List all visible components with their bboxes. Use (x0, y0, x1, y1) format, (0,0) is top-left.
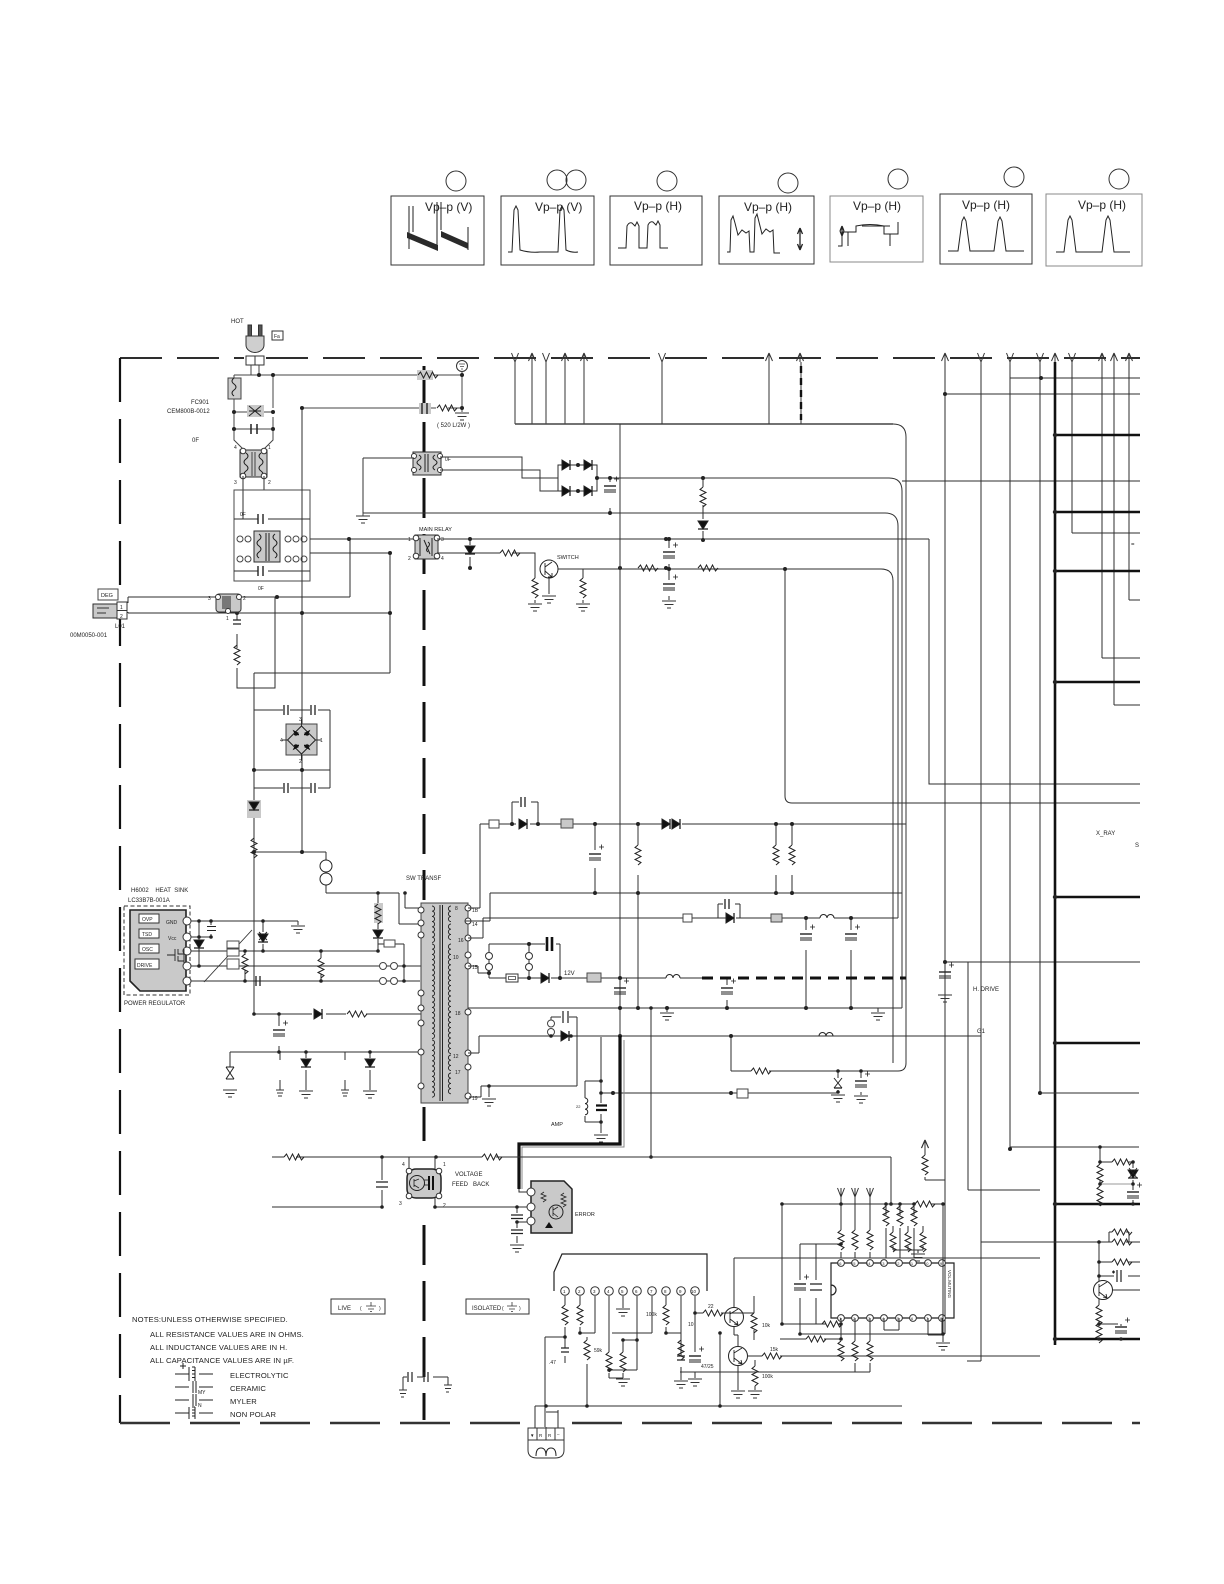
svg-text:13: 13 (880, 1261, 885, 1266)
svg-text:00M0050-001: 00M0050-001 (70, 633, 108, 639)
svg-text:FC901: FC901 (191, 400, 210, 406)
svg-text:10: 10 (691, 1289, 697, 1294)
svg-text:AMP: AMP (551, 1122, 563, 1128)
svg-text:Vp–p (H): Vp–p (H) (1078, 198, 1126, 212)
svg-text:.47: .47 (549, 1360, 556, 1366)
svg-text:3: 3 (441, 537, 444, 543)
svg-text:TSD: TSD (142, 932, 152, 938)
svg-text:Vcc: Vcc (168, 936, 177, 942)
svg-text:4: 4 (441, 556, 444, 562)
svg-text:Vp–p (H): Vp–p (H) (744, 200, 792, 214)
svg-text:ALL CAPACITANCE VALUES ARE IN: ALL CAPACITANCE VALUES ARE IN µF. (150, 1356, 294, 1365)
svg-text:( 520 L/2W ): ( 520 L/2W ) (437, 423, 470, 429)
svg-text:MYLER: MYLER (230, 1397, 257, 1406)
svg-text:22: 22 (576, 1104, 581, 1109)
svg-text:4: 4 (234, 445, 237, 451)
svg-text:H. DRIVE: H. DRIVE (973, 987, 999, 993)
svg-text:15k: 15k (770, 1347, 779, 1353)
svg-text:0F: 0F (192, 438, 199, 444)
svg-text:VOL.MUTING: VOL.MUTING (947, 1270, 952, 1299)
svg-text:MY: MY (198, 1390, 206, 1396)
svg-text:3: 3 (234, 480, 237, 486)
svg-text:POWER REGULATOR: POWER REGULATOR (124, 1001, 186, 1007)
svg-text:16: 16 (458, 938, 464, 944)
svg-text:3: 3 (208, 596, 211, 602)
svg-text:10k: 10k (762, 1323, 771, 1329)
svg-text:DEG: DEG (101, 593, 113, 599)
svg-text:L01: L01 (115, 624, 126, 630)
svg-text:Fa: Fa (274, 334, 280, 340)
svg-text:HOT: HOT (231, 319, 244, 325)
svg-text:18: 18 (455, 1011, 461, 1017)
svg-text:OSC: OSC (142, 947, 153, 953)
svg-text:12: 12 (895, 1261, 900, 1266)
svg-text:1: 1 (120, 605, 123, 611)
svg-text:2: 2 (443, 1203, 446, 1209)
svg-text:12V: 12V (564, 971, 575, 977)
svg-text:2: 2 (120, 614, 123, 620)
svg-text:17: 17 (455, 1070, 461, 1076)
svg-text:Vp–p (H): Vp–p (H) (962, 198, 1010, 212)
svg-text:SW TRANSF: SW TRANSF (406, 876, 442, 882)
svg-text:1: 1 (408, 537, 411, 543)
svg-text:ISOLATED: ISOLATED (472, 1306, 502, 1312)
svg-text:8: 8 (455, 906, 458, 912)
svg-text:ELECTROLYTIC: ELECTROLYTIC (230, 1371, 289, 1380)
svg-text:G1: G1 (977, 1029, 986, 1035)
svg-text:CEM800B-0012: CEM800B-0012 (167, 409, 210, 415)
svg-text:Vp–p (V): Vp–p (V) (535, 200, 582, 214)
svg-text:GND: GND (166, 920, 178, 926)
svg-text:47/25: 47/25 (701, 1364, 714, 1370)
svg-text:1: 1 (268, 445, 271, 451)
svg-text:ERROR: ERROR (575, 1212, 595, 1218)
svg-text:2: 2 (268, 480, 271, 486)
svg-text:NON POLAR: NON POLAR (230, 1410, 276, 1419)
svg-text:14: 14 (472, 922, 478, 928)
svg-text:16: 16 (837, 1261, 842, 1266)
svg-text:CERAMIC: CERAMIC (230, 1384, 266, 1393)
svg-text:22: 22 (708, 1304, 714, 1310)
svg-text:DRIVE: DRIVE (137, 963, 153, 969)
svg-text:FEED BACK: FEED BACK (452, 1182, 489, 1188)
svg-text:59k: 59k (594, 1348, 603, 1354)
svg-text:2: 2 (299, 759, 302, 765)
svg-text:14: 14 (866, 1261, 871, 1266)
svg-text:SWITCH: SWITCH (557, 555, 579, 561)
svg-text:NOTES:UNLESS OTHERWISE SPECIFI: NOTES:UNLESS OTHERWISE SPECIFIED. (132, 1315, 288, 1324)
svg-text:100k: 100k (646, 1312, 657, 1318)
svg-text:ALL INDUCTANCE VALUES ARE IN H: ALL INDUCTANCE VALUES ARE IN H. (150, 1343, 287, 1352)
svg-text:10: 10 (924, 1261, 929, 1266)
svg-text:3: 3 (299, 717, 302, 723)
svg-text:4: 4 (402, 1162, 405, 1168)
svg-text:0F: 0F (445, 457, 451, 463)
svg-text:▼: ▼ (530, 1433, 534, 1438)
svg-text:Vp–p (V): Vp–p (V) (425, 200, 472, 214)
svg-text:LIVE: LIVE (338, 1306, 351, 1312)
svg-text:100k: 100k (762, 1374, 773, 1380)
svg-text:N: N (198, 1403, 202, 1409)
svg-text:3: 3 (399, 1201, 402, 1207)
svg-text:ALL RESISTANCE VALUES ARE IN O: ALL RESISTANCE VALUES ARE IN OHMS. (150, 1330, 304, 1339)
svg-text:2: 2 (408, 556, 411, 562)
svg-text:S: S (1135, 843, 1139, 849)
svg-text:=: = (1131, 542, 1135, 548)
svg-text:10: 10 (453, 955, 459, 961)
svg-text:OVP: OVP (142, 917, 153, 923)
svg-text:2: 2 (243, 596, 246, 602)
svg-text:0F: 0F (258, 586, 264, 592)
svg-text:1: 1 (320, 738, 323, 744)
svg-text:Vp–p (H): Vp–p (H) (853, 199, 901, 213)
svg-text:0F: 0F (240, 512, 246, 518)
svg-text:1: 1 (226, 616, 229, 622)
svg-text:15: 15 (851, 1261, 856, 1266)
svg-text:Vp–p (H): Vp–p (H) (634, 199, 682, 213)
svg-text:VOLTAGE: VOLTAGE (455, 1172, 482, 1178)
svg-text:LC33B7B-001A: LC33B7B-001A (128, 898, 170, 904)
svg-text:1B: 1B (472, 908, 479, 914)
svg-text:X_RAY: X_RAY (1096, 831, 1115, 837)
svg-text:1: 1 (443, 1162, 446, 1168)
svg-text:12: 12 (453, 1054, 459, 1060)
svg-text:MAIN RELAY: MAIN RELAY (419, 527, 452, 533)
svg-text:H6002 HEAT SINK: H6002 HEAT SINK (131, 888, 188, 894)
svg-text:4: 4 (280, 738, 283, 744)
svg-text:10: 10 (688, 1322, 694, 1328)
